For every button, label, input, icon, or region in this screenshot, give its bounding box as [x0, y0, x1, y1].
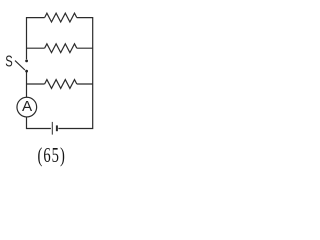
svg-text:(65): (65) — [38, 144, 66, 168]
svg-text:A: A — [22, 98, 33, 115]
svg-text:S: S — [5, 53, 12, 70]
